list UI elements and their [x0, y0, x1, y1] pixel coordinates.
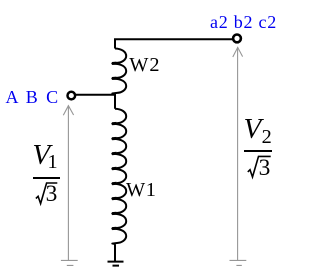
inductor W2 (3 turns) — [112, 49, 126, 95]
label W1 — [126, 180, 156, 200]
node a2 b2 c2 terminal circle — [233, 35, 241, 43]
inductor W1 (9 turns) — [112, 109, 126, 245]
label W2 — [129, 55, 160, 75]
dimension arrow V2 (right, gray) — [237, 47, 239, 260]
radical sign of V2/sqrt3 — [248, 156, 271, 177]
radical sign of V1/sqrt3 — [36, 183, 57, 204]
label V1/sqrt3 fraction — [32, 141, 50, 170]
dimension arrow V1 (left, gray) — [67, 106, 69, 261]
label a2 b2 c2 — [210, 13, 277, 31]
wire: middle horizontal from node ABC to junction — [76, 95, 116, 109]
cusp ticks W2 — [112, 63, 117, 78]
label V2/sqrt3 fraction — [244, 115, 262, 144]
ground — [108, 262, 124, 266]
wire: winding bottom to ground — [114, 245, 116, 262]
wire: top horizontal from node a2b2c2 to winding top — [115, 39, 233, 48]
label A B C — [6, 88, 61, 106]
cusp ticks W1 — [112, 123, 117, 228]
node A B C terminal circle — [68, 92, 76, 100]
